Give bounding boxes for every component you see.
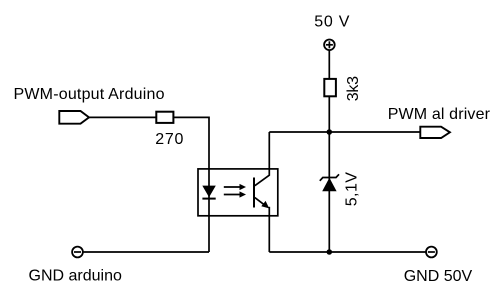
svg-text:3k3: 3k3 — [345, 76, 362, 101]
svg-text:270: 270 — [155, 131, 184, 148]
svg-text:50 V: 50 V — [314, 13, 350, 30]
svg-text:GND 50V: GND 50V — [404, 268, 473, 285]
svg-text:PWM al driver: PWM al driver — [388, 106, 491, 123]
svg-text:PWM-output Arduino: PWM-output Arduino — [14, 86, 165, 103]
svg-text:GND arduino: GND arduino — [29, 268, 122, 285]
svg-text:5,1V: 5,1V — [343, 172, 360, 207]
